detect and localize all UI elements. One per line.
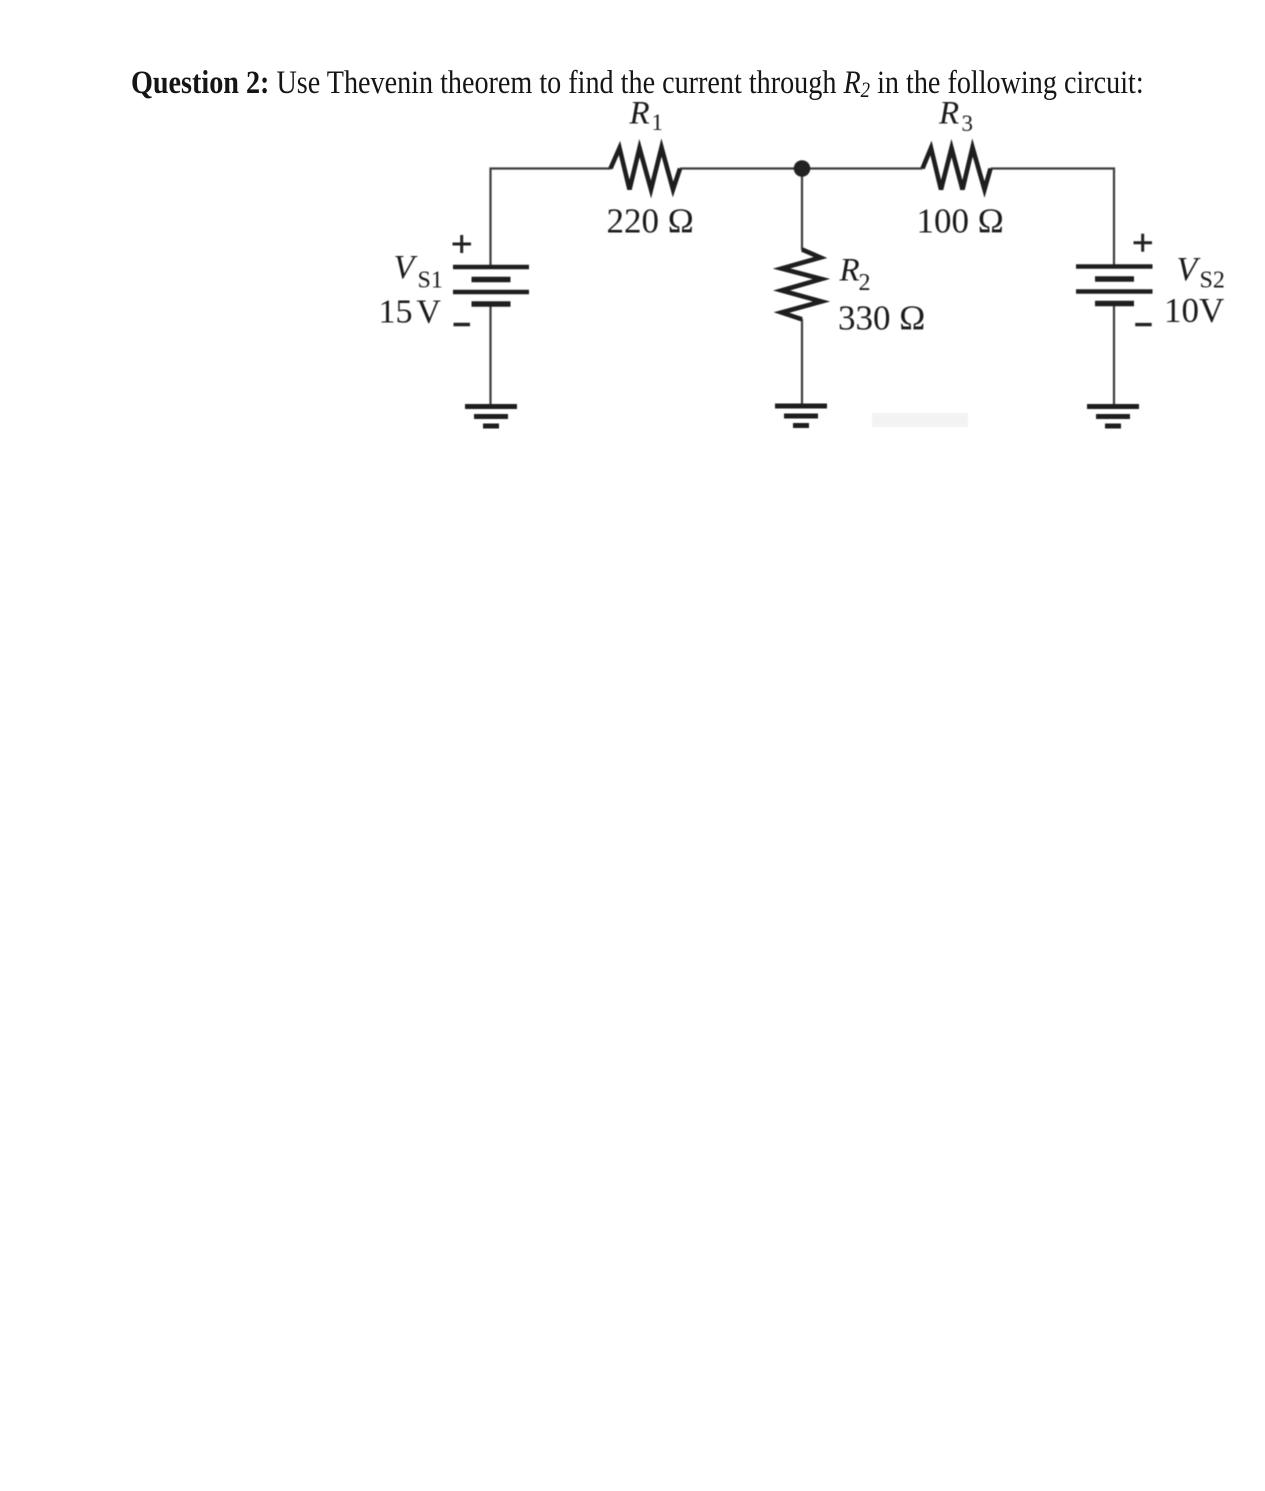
svg-text:100 Ω: 100 Ω xyxy=(917,202,1004,241)
title question text xyxy=(131,67,1144,106)
label - (VS2) xyxy=(1135,323,1152,326)
svg-text:R: R xyxy=(938,96,959,132)
resistor R3 xyxy=(923,148,991,190)
svg-text:R: R xyxy=(629,96,650,132)
ground (VS1) xyxy=(465,407,517,427)
svg-text:V: V xyxy=(1177,251,1202,288)
artifact faint smudge xyxy=(872,413,968,427)
battery VS2 xyxy=(1076,267,1153,304)
wire R2 branch top xyxy=(801,169,803,251)
wire top-left horizontal segment xyxy=(491,169,612,266)
svg-text:10V: 10V xyxy=(1164,291,1224,330)
svg-text:3: 3 xyxy=(962,111,974,136)
label + (VS1) xyxy=(453,235,472,253)
wire top right segment xyxy=(991,169,1115,266)
svg-text:1: 1 xyxy=(652,110,664,135)
wire top middle segment xyxy=(680,167,923,169)
svg-text:S1: S1 xyxy=(418,268,443,294)
wire below battery VS2 xyxy=(1113,304,1115,407)
svg-text:15 V: 15 V xyxy=(379,294,442,331)
svg-text:V: V xyxy=(394,249,419,286)
label - (VS1) xyxy=(454,323,471,326)
resistor R2 xyxy=(782,250,822,320)
ground (R2) xyxy=(775,406,827,426)
svg-text:2: 2 xyxy=(859,270,871,296)
wire below battery VS1 xyxy=(489,304,491,406)
label + (VS2) xyxy=(1134,234,1153,252)
ground (VS2) xyxy=(1087,407,1139,427)
svg-text:R: R xyxy=(839,253,860,289)
battery VS1 xyxy=(453,267,529,304)
svg-text:220 Ω: 220 Ω xyxy=(607,202,694,241)
resistor R1 xyxy=(611,148,681,190)
node junction dot xyxy=(794,160,811,177)
svg-text:330 Ω: 330 Ω xyxy=(838,299,925,338)
svg-text:S2: S2 xyxy=(1200,268,1225,294)
wire R2 branch bottom xyxy=(801,319,803,406)
